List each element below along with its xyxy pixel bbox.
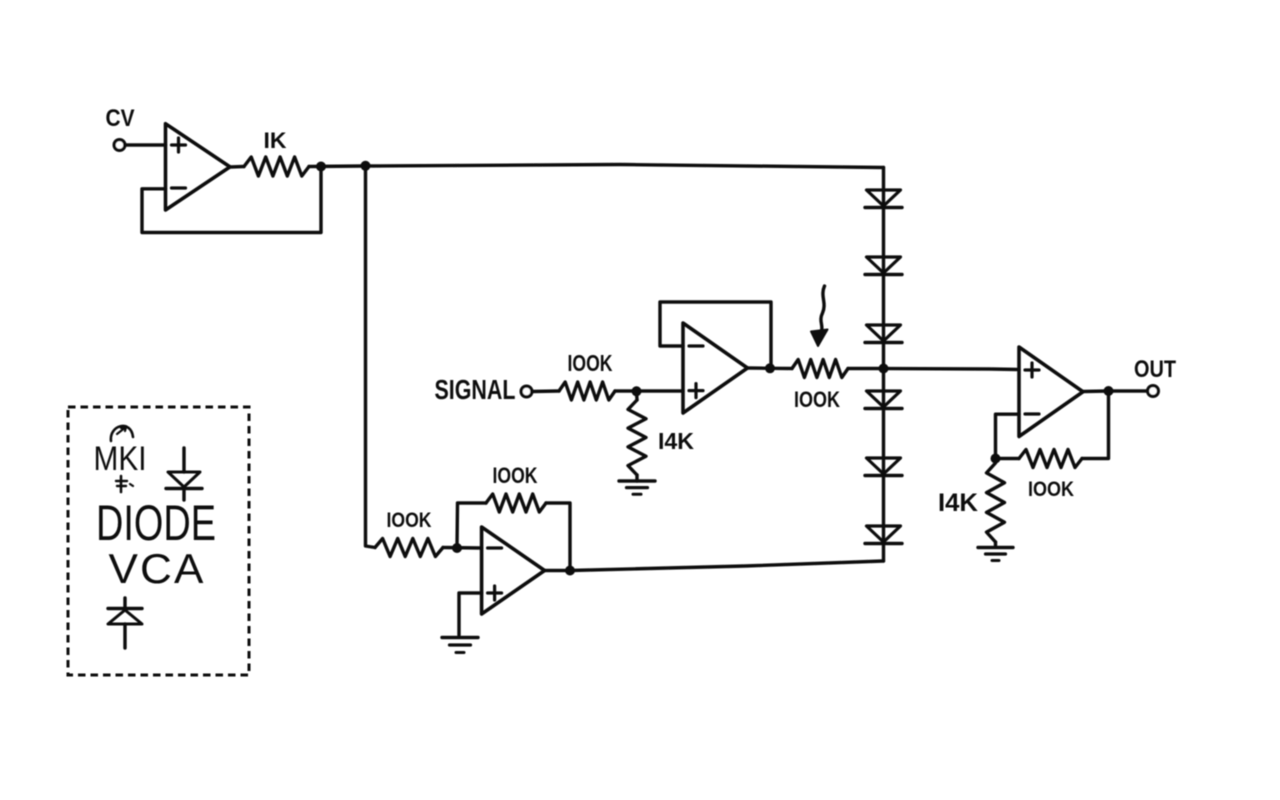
svg-text:IOOK: IOOK <box>794 387 840 412</box>
svg-text:IK: IK <box>264 128 287 153</box>
svg-text:SIGNAL: SIGNAL <box>435 374 516 405</box>
svg-text:IOOK: IOOK <box>1028 478 1074 501</box>
svg-text:DIODE: DIODE <box>96 495 216 551</box>
svg-text:MKI: MKI <box>94 440 147 478</box>
svg-text:IOOK: IOOK <box>493 463 538 488</box>
svg-text:OUT: OUT <box>1134 356 1176 383</box>
svg-text:IOOK: IOOK <box>568 350 613 376</box>
svg-text:CV: CV <box>106 105 135 132</box>
svg-text:IOOK: IOOK <box>387 509 432 532</box>
svg-text:I4K: I4K <box>938 489 978 517</box>
svg-text:VCA: VCA <box>109 545 206 592</box>
svg-text:I4K: I4K <box>658 428 694 454</box>
